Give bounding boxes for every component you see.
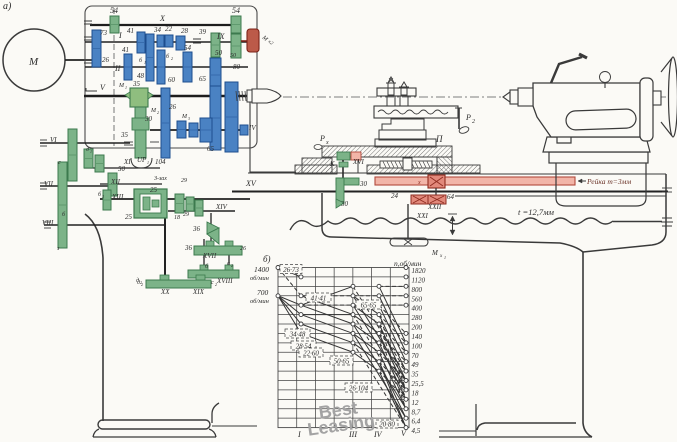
tailstock flange: [640, 78, 653, 141]
svg-text:М: М: [150, 108, 157, 114]
right pedestal foot top: [477, 423, 576, 430]
top slide box: [374, 106, 458, 118]
svg-text:XIII: XIII: [111, 193, 124, 201]
shaft XI: [84, 167, 160, 169]
svg-text:2: 2: [171, 56, 173, 61]
gear spindle col B: [225, 82, 238, 152]
bar XVIII nubs: [200, 265, 208, 270]
gear 54 shaft II: [183, 52, 192, 82]
svg-text:54: 54: [110, 6, 118, 15]
vertical shaft to XIX: [203, 239, 205, 282]
shaft VII end ticks: [40, 182, 47, 184]
motor circle: [3, 29, 65, 91]
svg-text:1400: 1400: [254, 265, 269, 274]
gear 22: [165, 35, 173, 47]
spindle cone: [252, 89, 281, 103]
tool post bolt right: [401, 82, 407, 95]
tool post top plate: [377, 88, 416, 96]
svg-text:1: 1: [125, 85, 127, 90]
svg-text:XIX: XIX: [192, 288, 205, 296]
svg-text:б): б): [263, 254, 271, 264]
svg-text:26·73: 26·73: [283, 266, 299, 274]
rack arrow: [578, 180, 586, 182]
svg-text:41·41: 41·41: [311, 295, 327, 303]
graph grid: [278, 268, 409, 428]
bed top line right: [480, 173, 666, 175]
K gear green: [337, 152, 350, 160]
svg-text:П: П: [435, 134, 443, 144]
cross feed screw nut: [403, 158, 412, 170]
svg-text:а: а: [227, 261, 230, 267]
svg-text:50: 50: [215, 49, 223, 57]
svg-text:41: 41: [127, 27, 134, 35]
cross feed screw hatches: [383, 162, 386, 168]
shaft I: [85, 41, 248, 43]
svg-text:25: 25: [125, 213, 133, 221]
shaft VIII: [44, 224, 165, 226]
svg-text:8,7: 8,7: [412, 408, 421, 416]
svg-text:IV: IV: [248, 124, 256, 132]
svg-text:24: 24: [391, 192, 399, 200]
ratio box 34:48: [285, 329, 310, 338]
svg-text:VI: VI: [50, 136, 57, 144]
svg-text:54: 54: [232, 6, 240, 15]
bevel gears: [207, 222, 219, 234]
XVI bracket foot: [336, 199, 344, 208]
M1 clutch block: [130, 88, 148, 107]
tailstock quill cap: [510, 90, 518, 104]
left bed way hatched: [295, 165, 337, 174]
svg-text:12: 12: [412, 399, 420, 407]
right pedestal foot left edge: [475, 404, 477, 436]
shaft V end bracket: [86, 88, 97, 91]
top slide wavy spring: [378, 110, 448, 114]
gear b1-48 tall: [146, 34, 154, 81]
ratio box 50:65: [330, 356, 353, 365]
vertical shaft bevel: [210, 213, 212, 250]
tailstock handle lever: [551, 57, 582, 83]
bed wavy line tail: [613, 221, 662, 223]
svg-text:XV: XV: [245, 179, 257, 188]
gearbox labels: [3, 1, 257, 296]
gear 41 shaft I: [137, 32, 145, 53]
svg-text:2: 2: [472, 119, 475, 125]
gear N3 b: [189, 123, 198, 137]
bar XVII: [194, 246, 242, 255]
svg-text:400: 400: [412, 305, 423, 313]
left carriage hatched block: [302, 158, 332, 173]
svg-text:49: 49: [412, 361, 420, 369]
svg-text:28: 28: [181, 27, 189, 35]
svg-text:36: 36: [184, 244, 193, 252]
tailstock knob: [604, 82, 606, 88]
svg-text:1: 1: [144, 60, 146, 65]
svg-text:6,4: 6,4: [412, 418, 421, 426]
shaft VI: [40, 142, 130, 144]
svg-text:XX: XX: [160, 288, 170, 296]
gear 54 left green: [110, 16, 119, 33]
svg-text:XVI: XVI: [352, 158, 365, 166]
ratio box 28:54: [291, 341, 316, 350]
gear 73-26 double: [92, 30, 101, 67]
right ground line: [439, 436, 592, 438]
svg-text:20·80: 20·80: [379, 421, 395, 429]
bar XIX-XX: [146, 280, 211, 288]
svg-text:50·65: 50·65: [334, 358, 350, 366]
P2 pin: [458, 108, 460, 129]
gear col B VII-VIII: [58, 162, 67, 248]
tailstock base1: [543, 137, 650, 152]
svg-text:I: I: [118, 31, 122, 40]
tailstock quill: [518, 88, 533, 106]
gearbox frame: [85, 6, 257, 148]
gear N3 c: [200, 118, 212, 142]
rack bar pink: [375, 177, 575, 185]
shaft X end ticks: [84, 20, 92, 22]
graph rays: [278, 268, 406, 428]
svg-text:t =12,7мм: t =12,7мм: [518, 207, 555, 217]
gear 50 green IX: [211, 33, 220, 57]
svg-text:35: 35: [132, 80, 141, 88]
compound base: [375, 139, 436, 147]
shaft VIII end ticks: [44, 221, 51, 223]
svg-text:М: М: [431, 249, 439, 257]
Px ellipse: [314, 145, 322, 150]
svg-text:60: 60: [168, 76, 176, 84]
gear 29a: [175, 194, 184, 213]
shaft X: [90, 24, 240, 26]
Mx2 stem: [241, 40, 249, 42]
right pedestal leg: [583, 252, 592, 437]
svg-text:P: P: [465, 113, 471, 122]
M1 bottom bracket: [131, 158, 152, 168]
gear b3 XIII: [103, 190, 111, 210]
shaft XIV: [168, 210, 235, 212]
svg-text:64: 64: [447, 193, 455, 201]
svg-text:об/мин: об/мин: [250, 275, 269, 282]
bed top line left: [248, 172, 480, 174]
spindle cone collar: [247, 90, 252, 102]
left ground line: [212, 425, 257, 427]
svg-text:25: 25: [150, 186, 158, 194]
right bed way hatched: [367, 165, 480, 174]
svg-text:700: 700: [257, 288, 269, 297]
bed right edge: [583, 174, 666, 252]
cross screw flange hatched: [437, 157, 452, 173]
shaft XIII: [100, 198, 250, 200]
feed rod end ticks: [662, 187, 672, 189]
svg-text:VIII: VIII: [42, 219, 54, 227]
svg-text:22: 22: [165, 25, 173, 33]
svg-text:34: 34: [153, 26, 162, 34]
ratio box 65:65: [356, 300, 381, 309]
svg-text:с: с: [211, 280, 214, 286]
svg-text:1: 1: [444, 255, 446, 260]
compound block 2: [379, 130, 426, 140]
tailstock base2: [549, 152, 648, 163]
apron hatched plate: [322, 146, 452, 157]
svg-text:XIV: XIV: [215, 203, 228, 211]
shaft XII: [100, 183, 162, 185]
spindle shaft V: [84, 95, 252, 97]
apron handle cross: [404, 239, 412, 245]
svg-text:30: 30: [144, 115, 153, 123]
svg-text:XVIII: XVIII: [216, 277, 233, 285]
svg-text:К: К: [329, 160, 335, 168]
svg-text:II: II: [114, 64, 121, 73]
rack pinion box: [428, 175, 445, 188]
ratio box 20:80: [376, 420, 398, 428]
svg-text:М: М: [181, 114, 188, 120]
svg-text:2: 2: [141, 282, 143, 287]
svg-text:IX: IX: [216, 32, 226, 41]
apron worm box left: [411, 195, 428, 204]
svg-text:54: 54: [184, 44, 192, 52]
svg-text:36: 36: [192, 225, 201, 233]
ratio box 26:73: [280, 265, 302, 274]
svg-text:50: 50: [230, 53, 236, 59]
XVI bracket green vert: [336, 178, 344, 203]
right axis speed values: [411, 267, 427, 435]
shaft VII: [40, 185, 108, 187]
vertical shaft to XVIII: [228, 242, 230, 274]
svg-text:4,5: 4,5: [412, 427, 421, 435]
tailstock wheel hub: [653, 91, 661, 105]
double arrow dash: [448, 213, 457, 215]
shaft I end ticks: [84, 36, 92, 38]
tool post right column: [400, 96, 408, 106]
gear XII: [108, 173, 117, 196]
K small nub: [339, 162, 348, 167]
tool post bolt left: [388, 77, 394, 95]
svg-text:2: 2: [231, 263, 233, 268]
apron worm cross right: [430, 196, 444, 203]
svg-text:100: 100: [412, 342, 423, 350]
svg-text:UP: UP: [137, 156, 147, 164]
svg-text:39: 39: [198, 28, 207, 36]
svg-text:1820: 1820: [412, 267, 427, 275]
apron handle: [390, 238, 428, 246]
svg-text:2: 2: [215, 282, 217, 287]
svg-text:26·104: 26·104: [349, 385, 369, 393]
svg-text:об/мин: об/мин: [250, 298, 269, 305]
vertical shaft to XX: [164, 215, 166, 284]
graph node circles: [276, 266, 408, 430]
bar XVII nubs: [206, 241, 214, 246]
svg-text:30: 30: [359, 180, 368, 188]
M1 lower column: [135, 107, 146, 158]
left pedestal neck line: [212, 403, 219, 423]
pinion stem: [435, 188, 437, 195]
tailstock handwheel: [661, 58, 672, 136]
svg-text:1: 1: [90, 149, 92, 154]
svg-text:x: x: [325, 140, 329, 146]
gear green IX col: [231, 34, 241, 58]
tailstock body: [533, 83, 640, 137]
gear b2-60 tall: [157, 50, 165, 84]
svg-text:48: 48: [137, 72, 145, 80]
gear IV end small: [240, 125, 248, 135]
shaft VI end ticks: [40, 139, 47, 141]
svg-text:25,5: 25,5: [412, 380, 425, 388]
svg-text:Рейка m=3мм: Рейка m=3мм: [586, 177, 631, 186]
leadscrew XV shaft: [232, 191, 668, 193]
feed rod line: [455, 195, 666, 197]
ratio box 41:41: [306, 293, 331, 302]
tailstock drum: [556, 163, 646, 206]
bed end ticks lower: [662, 217, 672, 219]
compound block 1: [382, 119, 424, 130]
XVI bracket green horiz: [336, 178, 359, 185]
P2 ellipse: [458, 125, 469, 134]
svg-text:41: 41: [122, 46, 129, 54]
gear 28 shaft I: [176, 36, 185, 50]
svg-text:а): а): [3, 1, 12, 12]
svg-text:М: М: [118, 83, 125, 89]
gear N3 a: [177, 121, 186, 138]
tailstock oval hole: [566, 109, 637, 130]
svg-text:35: 35: [411, 371, 420, 379]
XVI small pink box: [351, 152, 361, 160]
svg-text:P: P: [319, 134, 325, 143]
tool post left column: [387, 96, 395, 106]
svg-text:1: 1: [147, 160, 149, 165]
svg-text:29: 29: [181, 178, 187, 184]
svg-text:280: 280: [412, 314, 423, 322]
shaft II: [85, 66, 248, 68]
ratio box 22:60: [299, 348, 323, 357]
svg-text:140: 140: [412, 333, 423, 341]
svg-text:26: 26: [102, 56, 110, 64]
svg-text:1120: 1120: [412, 276, 426, 284]
svg-text:65: 65: [207, 145, 215, 153]
svg-text:80: 80: [233, 63, 241, 71]
K vertical shaft: [342, 160, 344, 181]
left pedestal leg: [85, 214, 103, 421]
tailstock center cone: [503, 92, 510, 102]
shaft II end ticks: [84, 59, 92, 61]
svg-text:М: М: [28, 56, 39, 68]
apron vertical shaft: [407, 204, 409, 238]
gear IX blue lower: [210, 58, 221, 92]
motor shaft: [65, 59, 92, 61]
svg-text:XXI: XXI: [416, 212, 429, 220]
gear 50 XI: [95, 155, 104, 172]
rack pinion cross: [430, 177, 443, 186]
svg-text:50: 50: [118, 165, 126, 173]
gear col A VI-VII: [68, 129, 77, 181]
M1 column gear: [132, 118, 149, 130]
gear 41 shaft II: [124, 54, 132, 80]
gear 104 column: [161, 88, 170, 158]
svg-text:30: 30: [340, 200, 349, 208]
svg-text:18: 18: [412, 389, 420, 397]
svg-text:XXII: XXII: [427, 203, 442, 211]
svg-text:3: 3: [102, 194, 104, 199]
svg-text:3: 3: [188, 116, 190, 121]
gear 34: [157, 35, 164, 47]
svg-text:XII: XII: [110, 178, 121, 186]
gearbox divider dashed: [113, 8, 115, 146]
svg-text:26: 26: [169, 103, 177, 111]
apron worm cross left: [413, 196, 426, 203]
ratio box 26:104: [345, 383, 372, 392]
svg-text:2: 2: [157, 110, 159, 115]
svg-text:З-зах: З-зах: [154, 176, 167, 182]
bar XVIII: [188, 270, 239, 278]
svg-text:с: с: [58, 160, 61, 166]
svg-text:XVII: XVII: [202, 252, 217, 260]
cross feed screw box: [358, 157, 437, 173]
gear XIV small: [195, 200, 203, 216]
bed wavy break line: [290, 218, 613, 230]
gear 54 right green: [231, 16, 241, 33]
left pedestal plinth: [93, 429, 216, 437]
svg-text:18: 18: [174, 215, 180, 221]
svg-text:д: д: [137, 279, 140, 286]
Mx2 knob: [247, 29, 259, 52]
svg-text:д: д: [86, 146, 89, 153]
left pedestal foot band: [98, 420, 210, 429]
svg-text:22·60: 22·60: [303, 350, 319, 358]
cross feed screw rod: [380, 161, 432, 168]
svg-text:I: I: [297, 430, 301, 439]
svg-text:104: 104: [155, 158, 166, 166]
gear spindle col A: [210, 86, 221, 150]
svg-text:29: 29: [183, 212, 189, 218]
svg-text:26: 26: [240, 246, 246, 252]
svg-text:IV: IV: [373, 430, 383, 439]
gear d1: [84, 149, 93, 168]
shaft IV lower: [150, 129, 248, 131]
bed outline: [322, 193, 583, 252]
svg-text:73: 73: [100, 29, 108, 37]
svg-text:560: 560: [412, 295, 423, 303]
gear 35 ticks: [124, 141, 133, 143]
svg-text:65: 65: [199, 75, 207, 83]
bar XIX-XX nubs: [160, 275, 169, 280]
spindle thread: [236, 91, 237, 101]
svg-text:65·65: 65·65: [361, 302, 377, 310]
svg-text:34·48: 34·48: [289, 331, 306, 339]
double arrow: [452, 218, 454, 233]
svg-text:VII: VII: [44, 180, 54, 188]
headstock right edge: [250, 99, 296, 172]
svg-text:800: 800: [412, 286, 423, 294]
norton box: [134, 189, 167, 218]
bottom axis shaft labels: [297, 429, 407, 439]
gear 29b: [186, 197, 194, 211]
apron worm box right: [428, 195, 446, 204]
svg-text:x: x: [417, 180, 421, 186]
svg-text:35: 35: [120, 131, 129, 139]
svg-text:200: 200: [412, 324, 423, 332]
spindle centerline: [283, 96, 672, 98]
svg-text:70: 70: [412, 352, 420, 360]
